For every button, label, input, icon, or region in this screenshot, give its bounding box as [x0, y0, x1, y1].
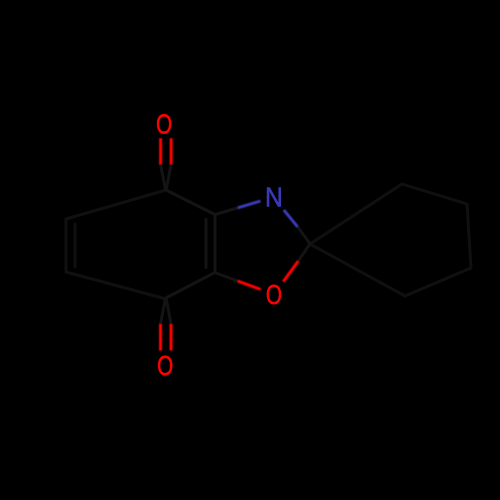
cyclohexene ring (left, faint carbon bonds): [66, 190, 166, 299]
svg-text:O: O: [157, 351, 173, 382]
bond N-C2 nitrogen half: [284, 210, 298, 227]
bond C4=O carbon halves (converging): [161, 165, 172, 190]
bond C5=C6 inner line: [74, 224, 77, 267]
bond O1-C2 carbon half: [298, 244, 310, 261]
core carbon skeleton (faint): [161, 165, 311, 325]
bond C3a=C7a inner line: [205, 220, 208, 268]
bond C4-C3a: [166, 190, 215, 215]
svg-text:O: O: [156, 110, 172, 141]
bond C5=C6 main line: [65, 219, 68, 272]
bond C3a-N carbon half: [215, 208, 238, 215]
bond C7=O oxygen half, double line: [161, 324, 172, 351]
bond C4-C5: [66, 190, 166, 219]
bond C7a-O1 carbon half: [215, 273, 238, 281]
bond C3a=C7a main line (ring fusion): [214, 215, 217, 273]
bond C2-C2': [310, 184, 402, 244]
bond N-C2 carbon half: [298, 227, 310, 244]
bond C3'-C4': [467, 204, 471, 268]
svg-text:N: N: [265, 181, 283, 213]
bond C2'-C3': [402, 184, 467, 204]
bond C4'-C5': [405, 268, 471, 296]
atom labels: [156, 110, 283, 382]
svg-text:O: O: [266, 280, 282, 311]
cyclohexane ring (right, faint carbon bonds): [310, 184, 471, 296]
bond C4=O oxygen half, double line: [161, 138, 172, 164]
bond C7=O carbon halves (converging): [161, 299, 172, 324]
bond C5'-C2: [310, 244, 405, 296]
bond O1-C2 oxygen half: [283, 261, 298, 281]
oxygen-colored bond halves (red): [161, 138, 299, 350]
bond C7a-O1 oxygen half: [238, 281, 261, 289]
nitrogen-colored bond halves (blue): [238, 201, 298, 227]
bond C7a-C7: [166, 273, 215, 298]
bond C3a-N nitrogen half: [238, 201, 261, 208]
bond C6-C7: [66, 272, 166, 299]
